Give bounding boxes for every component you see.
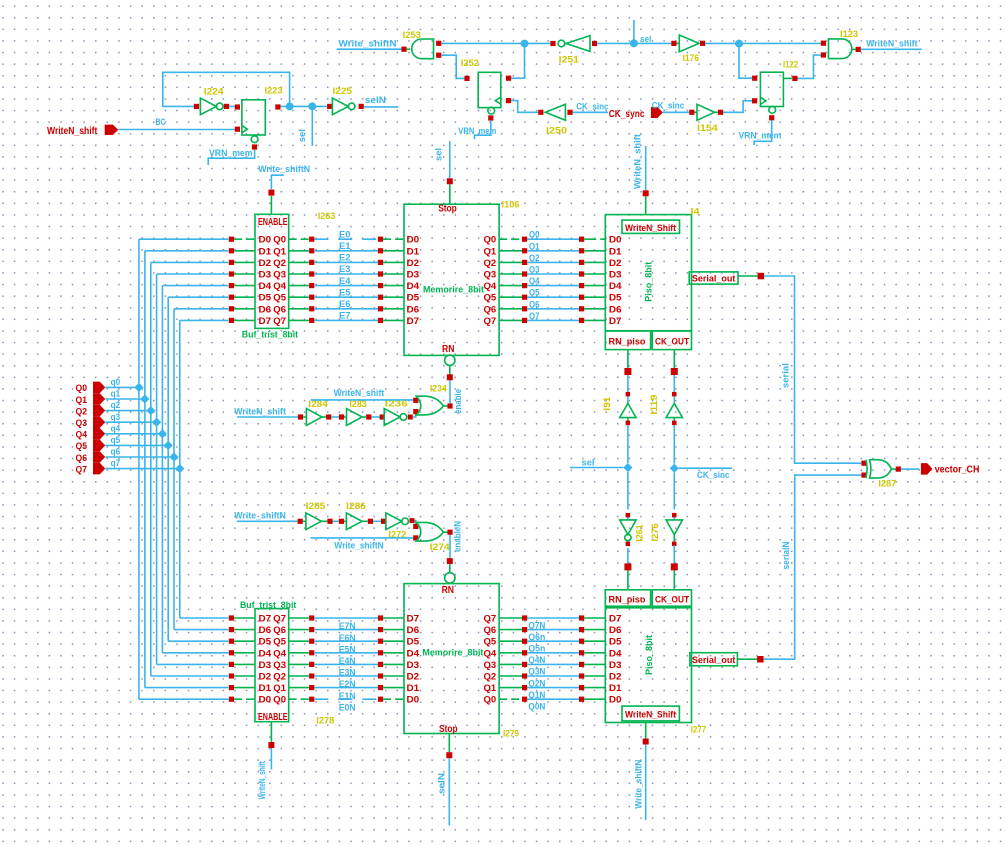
net label Q2N <box>528 678 545 689</box>
flip-flop I223 <box>235 100 281 150</box>
svg-text:D0: D0 <box>407 235 420 245</box>
port label Stop (I106) <box>438 204 457 215</box>
net label E7N <box>339 621 356 632</box>
I106 pin text Q7 <box>484 316 497 326</box>
net label q6 <box>111 447 121 458</box>
svg-text:D2: D2 <box>259 258 272 268</box>
svg-text:enableN: enableN <box>452 521 463 552</box>
wire Write_shiftN to I253 output <box>337 48 402 50</box>
svg-text:Q2: Q2 <box>273 258 286 268</box>
I277 pin text D3 <box>609 660 622 670</box>
shift register block I277 Piso_8bit outline <box>605 590 737 723</box>
wire I91 to junction sel2 <box>627 425 629 463</box>
svg-text:D6: D6 <box>609 625 622 635</box>
svg-text:D1: D1 <box>259 683 272 693</box>
svg-text:Write_shiftN: Write_shiftN <box>334 540 384 551</box>
svg-text:D5: D5 <box>407 637 420 647</box>
block label Piso_8bit (I4) vertical <box>644 261 655 302</box>
net label q2 <box>111 400 121 411</box>
instance label I285 <box>306 501 326 512</box>
wire Q7N memorire to piso <box>499 615 605 620</box>
buffer I250 (mirrored, output left) <box>538 104 572 120</box>
instance label I224 <box>204 86 225 97</box>
svg-text:E0: E0 <box>339 229 351 240</box>
input pin Q1 <box>76 393 106 406</box>
net label seIN <box>365 95 386 106</box>
svg-text:D6: D6 <box>407 304 420 314</box>
svg-text:Q1: Q1 <box>484 683 497 693</box>
net label Q6 (top) <box>529 299 540 310</box>
wire WriteN_shift to I284 <box>237 416 298 418</box>
I279 pin text Q1 <box>484 683 497 693</box>
shift register block I4 Piso_8bit outline <box>605 215 738 350</box>
node junction q6 <box>169 452 178 461</box>
svg-text:E1: E1 <box>339 241 351 252</box>
I4 pin text D3 <box>609 270 622 280</box>
svg-text:Write_shiftN: Write_shiftN <box>258 164 310 175</box>
svg-text:q1: q1 <box>111 389 121 400</box>
svg-text:I223: I223 <box>265 86 283 97</box>
port label RN_piso (I277) <box>609 595 646 606</box>
port label Serial_out (I4) <box>692 274 736 285</box>
wire CK_sync to I154 <box>663 111 689 113</box>
svg-text:Q5: Q5 <box>273 293 286 303</box>
instance label I251 <box>559 54 580 65</box>
instance label I283 <box>349 399 366 410</box>
wire q1 from pin to bus <box>105 398 145 400</box>
port pin CK_OUT top (I277) <box>671 563 678 589</box>
I277 pin text D6 <box>609 625 622 635</box>
svg-text:q4: q4 <box>111 423 121 434</box>
inverter I261 (pointing down) <box>620 513 636 546</box>
I279 pin text D5 <box>407 637 420 647</box>
wire I253 top input to junction B1 <box>441 42 521 44</box>
I278 row D1/Q1 pins <box>229 683 315 693</box>
I279 pin text D4 <box>407 648 420 658</box>
port pin RN_piso top (I277) <box>624 563 631 589</box>
svg-text:I279: I279 <box>503 729 519 740</box>
wire q2 from pin to bus <box>105 410 151 412</box>
input pin Q0 <box>76 382 106 395</box>
svg-text:seIN: seIN <box>365 95 386 106</box>
I4 pin text D1 <box>609 246 622 256</box>
I106 pin text D2 <box>407 258 420 268</box>
pin E6N to memorire <box>378 627 404 632</box>
svg-text:WriteN_shift: WriteN_shift <box>257 760 268 799</box>
I4 pin text D6 <box>609 304 622 314</box>
port pin Stop (I279) <box>446 734 452 759</box>
svg-text:D5: D5 <box>609 293 622 303</box>
wire bus bit 7 vertical <box>179 320 181 618</box>
net label sel (above I106) <box>434 148 445 161</box>
svg-text:D3: D3 <box>259 270 272 280</box>
svg-text:I251: I251 <box>559 54 580 65</box>
net label E1N <box>339 691 356 702</box>
svg-text:E6: E6 <box>339 299 351 310</box>
svg-text:CK_OUT: CK_OUT <box>655 337 689 348</box>
wire bus bit 1 to top buffer D1 <box>145 250 228 252</box>
wire serial from I4 Serial_out to I287 <box>764 276 861 463</box>
svg-text:ENABLE: ENABLE <box>258 217 288 228</box>
svg-text:D7: D7 <box>407 316 420 326</box>
inverter I272 <box>381 513 415 530</box>
svg-text:Write_shiftN: Write_shiftN <box>234 511 286 522</box>
I279 pin text Q7 <box>484 614 497 624</box>
node junction q7 <box>175 464 184 473</box>
svg-text:D5: D5 <box>609 637 622 647</box>
svg-text:Q6: Q6 <box>484 625 497 635</box>
net stub sel (down from junction A2) <box>311 106 313 146</box>
net stub Write_shiftN below I277 <box>645 745 647 820</box>
net label VRN_mem (I252) <box>458 126 496 137</box>
svg-text:CK_sync: CK_sync <box>609 109 645 120</box>
pin E1N to memorire <box>378 685 404 690</box>
wire E4N <box>314 652 378 654</box>
wire E3N <box>314 663 378 665</box>
wire I119 to junction ck2 <box>673 425 675 464</box>
wire E3 <box>314 273 378 275</box>
wire bus bit 5 to bottom buffer D5 <box>168 640 228 642</box>
wire I253 bottom input to I252 D <box>441 55 464 78</box>
svg-text:WriteN_Shift: WriteN_Shift <box>625 223 677 234</box>
wire bus bit 6 to top buffer D6 <box>174 308 228 310</box>
buffer I276 (pointing down) <box>666 513 682 546</box>
svg-text:D3: D3 <box>609 660 622 670</box>
input pin CK_sync <box>609 107 663 120</box>
I4 pin text D5 <box>609 293 622 303</box>
I106 pin text D5 <box>407 293 420 303</box>
svg-text:serial: serial <box>780 363 791 388</box>
svg-text:Piso_8bit: Piso_8bit <box>644 634 655 675</box>
buffer I91 (pointing up) <box>620 392 636 425</box>
wire enableN I274 to I279 RN <box>449 535 451 559</box>
input pin Q6 <box>76 451 106 464</box>
svg-text:Q0: Q0 <box>273 235 286 245</box>
I279 pin text D2 <box>407 672 420 682</box>
svg-text:RN: RN <box>442 585 454 596</box>
svg-text:D1: D1 <box>609 683 622 693</box>
I263 row D4/Q4 pins <box>229 281 315 291</box>
block label Memorire_8bit (I279) <box>422 647 484 658</box>
wire Q6N memorire to piso <box>499 627 605 632</box>
net label E0 <box>339 229 351 240</box>
wire E7 <box>314 319 378 321</box>
net label serialN (vertical) <box>781 541 792 569</box>
buffer I286 <box>339 513 373 530</box>
wire q7 from pin to bus <box>105 468 180 470</box>
net label Q4 (top) <box>529 276 540 287</box>
I278 row D0/Q0 pins <box>229 695 315 705</box>
wire E1 <box>314 250 378 252</box>
block label Buf_trist_8bit (I278) <box>240 600 297 611</box>
port label Serial_out (I277) <box>692 655 736 666</box>
svg-text:CK_sinc: CK_sinc <box>652 100 685 111</box>
xor-gate I287 <box>861 460 901 478</box>
svg-text:Stop: Stop <box>439 724 458 735</box>
net label E0N <box>339 702 356 713</box>
svg-text:Q7: Q7 <box>484 614 497 624</box>
svg-text:Q0: Q0 <box>484 695 497 705</box>
svg-text:vector_CH: vector_CH <box>935 465 980 476</box>
I106 pin text Q6 <box>484 304 497 314</box>
net label Q3 (top) <box>529 265 540 276</box>
svg-text:I277: I277 <box>691 724 706 735</box>
svg-text:E5N: E5N <box>339 644 356 655</box>
svg-text:sel: sel <box>582 457 595 468</box>
svg-text:Q0: Q0 <box>484 235 497 245</box>
net label E2 <box>339 253 351 264</box>
svg-text:I119: I119 <box>649 395 660 415</box>
net label E6N <box>339 633 356 644</box>
wire junction B1 down to I252 Q <box>511 47 524 78</box>
svg-text:ENABLE: ENABLE <box>258 712 288 723</box>
wire bus bit 4 to bottom buffer D4 <box>162 652 228 654</box>
instance label I277 <box>691 724 706 735</box>
svg-text:Q1: Q1 <box>529 241 540 252</box>
pin E3 to memorire <box>378 271 404 276</box>
svg-text:Piso_8bit: Piso_8bit <box>644 261 655 302</box>
port label RN_piso (I4) <box>609 337 646 348</box>
net label Q1N <box>528 690 545 701</box>
wire I283 to I236 <box>371 416 379 418</box>
memory block I279 Memorire_8bit outline <box>404 584 499 734</box>
net label q0 <box>111 377 121 388</box>
svg-text:Q6: Q6 <box>273 304 286 314</box>
svg-text:E4: E4 <box>339 276 351 287</box>
I4 pin text D2 <box>609 258 622 268</box>
net stub Write_shiftN to I274 bottom input <box>311 537 414 539</box>
I278 row D6/Q6 pins <box>229 625 315 635</box>
svg-text:Q4: Q4 <box>484 281 497 291</box>
port pin ENABLE bottom (I278) <box>268 722 274 748</box>
net stub sel (up) <box>633 20 635 43</box>
svg-text:WriteN_shift: WriteN_shift <box>47 126 98 137</box>
port label RN (I279) <box>442 585 454 596</box>
net label BC <box>156 117 166 128</box>
wire Q5 memorire to piso <box>499 295 605 300</box>
instance label I286 <box>346 501 366 512</box>
net label VRN_mem (I223) <box>209 148 253 159</box>
instance label I119 (vertical) <box>649 395 660 415</box>
svg-text:D0: D0 <box>609 235 622 245</box>
svg-text:WriteN_shift: WriteN_shift <box>866 39 918 50</box>
svg-text:Q4: Q4 <box>76 430 88 441</box>
wire I272 to I274 top input <box>415 521 416 524</box>
svg-text:Q7: Q7 <box>484 316 497 326</box>
net label E6 <box>339 299 351 310</box>
wire Q3 memorire to piso <box>499 271 605 276</box>
net label E2N <box>339 679 356 690</box>
net stub WriteN_shift to I234 top input <box>311 399 414 401</box>
I4 pin text D4 <box>609 281 622 291</box>
node junction sel <box>630 39 638 47</box>
buffer I284 <box>298 409 331 426</box>
wire Q4N memorire to piso <box>499 650 605 655</box>
svg-text:I91: I91 <box>602 396 613 411</box>
flip-flop I122 <box>752 72 798 120</box>
wire Q5N memorire to piso <box>499 639 605 644</box>
port label WriteN_Shift (I277) <box>625 710 677 721</box>
I279 pin text D7 <box>407 614 420 624</box>
svg-text:Stop: Stop <box>438 204 457 215</box>
net label WriteN_shift (below I278, vertical) <box>257 760 268 799</box>
port bubble RN (I106) <box>445 355 455 365</box>
net label sel (vertical) <box>297 129 308 142</box>
net label E7 <box>339 311 351 322</box>
instance label I106 <box>502 200 520 211</box>
svg-text:D7: D7 <box>407 614 420 624</box>
node junction A1 <box>286 102 294 110</box>
svg-text:E4N: E4N <box>339 656 356 667</box>
svg-text:D7: D7 <box>259 316 272 326</box>
net label Write_shiftN (row B input) <box>234 511 286 522</box>
instance label I91 (vertical) <box>602 396 613 411</box>
I106 pin text D7 <box>407 316 420 326</box>
wire Q7 memorire to piso <box>499 318 605 323</box>
net label WriteN_shift (row A input) <box>234 406 286 417</box>
I278 row D7/Q7 pins <box>229 614 315 624</box>
svg-text:q2: q2 <box>111 400 121 411</box>
instance label I287 <box>878 479 896 490</box>
svg-text:I274: I274 <box>430 542 451 553</box>
I278 row D5/Q5 pins <box>229 637 315 647</box>
svg-text:BC: BC <box>156 117 166 128</box>
svg-text:seIN: seIN <box>437 773 448 794</box>
svg-text:I261: I261 <box>635 524 646 542</box>
svg-text:I234: I234 <box>430 383 448 394</box>
I279 pin text Q0 <box>484 695 497 705</box>
wire BC from WriteN_shift pin to I223 clock <box>118 129 235 131</box>
buffer I176 <box>671 35 705 52</box>
wire I285 to I286 <box>333 520 339 522</box>
net label E4N <box>339 656 356 667</box>
output pin vector_CH <box>921 463 980 476</box>
I263 row D5/Q5 pins <box>229 293 315 303</box>
wire Q6 memorire to piso <box>499 306 605 311</box>
net stub CK_sinc (left) <box>573 111 608 113</box>
port bubble RN (I279) <box>445 573 455 583</box>
svg-text:Buf_trist_8bit: Buf_trist_8bit <box>240 600 297 611</box>
svg-text:D3: D3 <box>407 270 420 280</box>
svg-text:D3: D3 <box>259 660 272 670</box>
wire Q0N memorire to piso <box>499 697 605 702</box>
net label Q1 (top) <box>529 241 540 252</box>
wire bus bit 6 vertical <box>173 309 175 630</box>
wire bus bit 4 vertical <box>161 286 163 653</box>
svg-text:VRN_mem: VRN_mem <box>209 148 253 159</box>
node junction sel2 <box>623 463 632 472</box>
instance label I272 <box>388 530 406 541</box>
input pin Q2 <box>76 405 106 418</box>
svg-text:Q5: Q5 <box>484 293 497 303</box>
pin E6 to memorire <box>378 306 404 311</box>
I277 pin text D0 <box>609 695 622 705</box>
net stub sel above Stop <box>449 141 451 178</box>
net stub seIN below I279 <box>448 758 450 825</box>
wire VRN_mem stub of I252 <box>475 121 491 139</box>
svg-text:I252: I252 <box>461 58 479 69</box>
svg-text:Q6: Q6 <box>273 625 286 635</box>
block label Buf_trist_8bit (I263) <box>242 330 299 341</box>
svg-text:I263: I263 <box>318 211 336 222</box>
svg-text:Q3: Q3 <box>529 265 540 276</box>
svg-text:D6: D6 <box>407 625 420 635</box>
I278 row D4/Q4 pins <box>229 648 315 658</box>
wire bus bit 3 to top buffer D3 <box>157 273 229 275</box>
pin E4 to memorire <box>378 283 404 288</box>
port pin ENABLE top (I263) <box>268 190 274 215</box>
net stub WriteN_shift above I4 <box>645 146 647 190</box>
svg-text:D3: D3 <box>407 660 420 670</box>
svg-text:RN_piso: RN_piso <box>609 337 646 348</box>
svg-text:E1N: E1N <box>339 691 356 702</box>
port label ENABLE (I278) <box>258 712 288 723</box>
and-gate I253 (mirrored) <box>401 39 441 59</box>
port pin WriteN_Shift bottom (I277) <box>643 721 649 745</box>
instance label I234 <box>430 383 448 394</box>
svg-text:D2: D2 <box>259 672 272 682</box>
wire I154 to I122 clock <box>723 101 752 113</box>
instance label I263 <box>318 211 336 222</box>
wire bus bit 3 vertical <box>156 274 158 664</box>
svg-text:I176: I176 <box>683 53 699 64</box>
svg-text:E7: E7 <box>339 311 351 322</box>
wire Q2N memorire to piso <box>499 673 605 678</box>
svg-text:WriteN_shift: WriteN_shift <box>632 133 643 189</box>
port pin RN (I279) <box>447 558 453 573</box>
svg-text:D4: D4 <box>407 648 420 658</box>
wire sel stub (middle) <box>570 467 624 469</box>
svg-text:D5: D5 <box>259 293 272 303</box>
net label q3 <box>111 412 121 423</box>
wire E4 <box>314 285 378 287</box>
net label VRN_mem (I122) <box>739 130 782 141</box>
node junction B2 <box>735 40 743 48</box>
wire E6 <box>314 308 378 310</box>
instance label I278 <box>316 716 334 727</box>
node junction q4 <box>158 429 167 438</box>
svg-text:WriteN_Shift: WriteN_Shift <box>625 710 677 721</box>
net label WriteN_shift (top right) <box>866 39 918 50</box>
svg-text:I4: I4 <box>691 206 701 217</box>
svg-text:Q4: Q4 <box>273 281 286 291</box>
net label q7 <box>111 458 121 469</box>
wire bus bit 5 to top buffer D5 <box>168 296 228 298</box>
inverter I225 <box>327 98 364 115</box>
wire Q4 memorire to piso <box>499 283 605 288</box>
svg-text:E5: E5 <box>339 287 351 298</box>
net label q5 <box>111 435 121 446</box>
node junction q0 <box>134 383 143 392</box>
net label Q3N <box>528 667 545 678</box>
port label CK_OUT (I4) <box>655 337 689 348</box>
port pin RN (I106) <box>447 366 453 381</box>
svg-text:CK_OUT: CK_OUT <box>655 595 689 606</box>
instance label I253 <box>403 30 421 41</box>
port label WriteN_Shift (I4) <box>625 223 677 234</box>
wire E1N <box>314 687 378 689</box>
wire I286 to I272 <box>373 520 381 522</box>
instance label I279 <box>503 729 519 740</box>
wire I252 clock from I250 <box>511 101 538 113</box>
or-gate I274 <box>413 522 452 541</box>
svg-text:D4: D4 <box>609 648 622 658</box>
svg-text:D1: D1 <box>609 246 622 256</box>
wire I236 to I234 bottom input <box>413 414 416 417</box>
svg-text:q7: q7 <box>111 458 121 469</box>
port pin Serial_out (I277) <box>737 656 763 663</box>
net label E3 <box>339 264 351 275</box>
